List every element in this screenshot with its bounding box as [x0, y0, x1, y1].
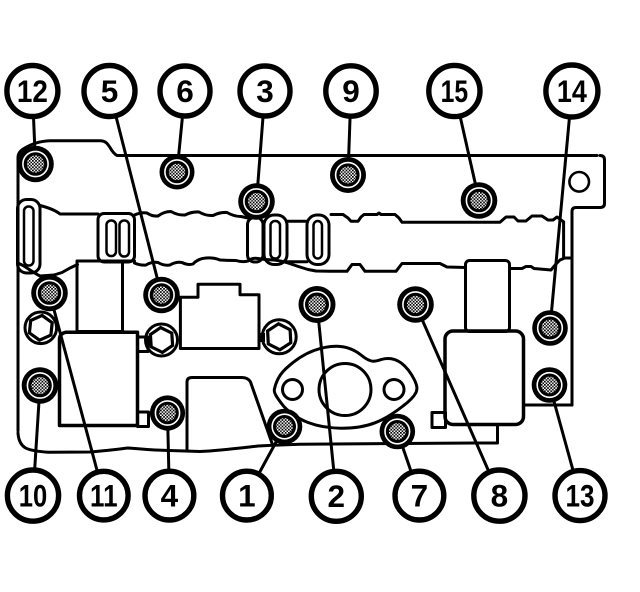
callout 12: [7, 66, 58, 117]
svg-text:12: 12: [17, 73, 48, 109]
leader line 2: [317, 305, 336, 496]
leader line 11: [50, 293, 104, 496]
bolt 10: [22, 367, 59, 404]
leader line 3: [257, 91, 266, 202]
bolt 12: [17, 146, 54, 183]
flange ear hole right: [384, 380, 404, 400]
capsule A inner slot: [271, 221, 281, 259]
svg-text:10: 10: [19, 477, 48, 513]
square notch left of right rect: [432, 413, 446, 428]
right end capsule: [564, 222, 572, 258]
svg-text:9: 9: [342, 73, 360, 109]
hex nut 2: [146, 324, 178, 356]
bottom edge: [18, 425, 498, 452]
ledge below center boss: [187, 378, 273, 450]
callout 13: [555, 471, 605, 521]
square notch upper right of left rect: [138, 337, 149, 352]
bolt 14: [532, 310, 568, 346]
leader line 9: [348, 91, 351, 175]
callout 10: [7, 470, 58, 521]
callout 11: [80, 471, 129, 520]
leader line 14: [550, 91, 572, 328]
capsule B inner slot: [314, 221, 323, 259]
callout 8: [474, 470, 525, 521]
callout 9: [326, 66, 376, 116]
flange ear hole left: [283, 380, 303, 400]
svg-text:4: 4: [161, 477, 179, 513]
svg-text:11: 11: [90, 477, 118, 513]
part outline: top edge and left edge: [18, 141, 597, 431]
center double-slot boss: [98, 214, 135, 263]
callout 7: [395, 471, 444, 520]
lower wavy parting line, middle segment: [135, 258, 466, 271]
bolt 4: [150, 395, 185, 430]
svg-text:15: 15: [441, 73, 469, 109]
upper wavy parting line, middle segment: [135, 212, 249, 219]
bolt 3: [238, 183, 275, 220]
svg-text:8: 8: [491, 477, 509, 513]
leader line 15: [454, 91, 479, 200]
slot capsule B: [307, 215, 329, 265]
exhaust flange: [274, 346, 417, 428]
tab hole: [569, 172, 589, 192]
flange center bore: [319, 364, 371, 416]
lower wavy parting line, right segment: [510, 259, 564, 271]
upper wavy parting line, left segment: [40, 206, 98, 215]
bolt 13: [532, 367, 568, 403]
callout 5: [84, 66, 135, 117]
center boss with tab: [180, 284, 259, 348]
bolt 6: [160, 155, 195, 190]
callout 3: [240, 66, 290, 116]
svg-text:1: 1: [238, 477, 256, 513]
bolt 11: [31, 275, 68, 312]
left tower rect: [77, 261, 123, 332]
leader line 7: [397, 432, 419, 496]
left slot capsule boss: [18, 200, 41, 274]
callout 4: [145, 471, 194, 520]
left capsule inner slot: [24, 207, 34, 266]
top-right tab: [572, 156, 605, 406]
callout 1: [223, 471, 272, 520]
tall bar boss right of bolt 3: [248, 218, 264, 263]
callout 6: [160, 66, 210, 116]
left tower top edge extension: [123, 260, 135, 263]
center boss slot 2: [120, 221, 130, 257]
leader line 13: [550, 385, 581, 496]
hex nut 1: [25, 312, 57, 344]
upper wavy parting line, right segment: [331, 213, 564, 222]
right tower rect: [466, 261, 510, 332]
callout 14: [546, 65, 598, 117]
leader line 4: [168, 413, 170, 496]
leader line 1: [247, 427, 285, 496]
lower wavy parting line, left segment: [18, 263, 78, 276]
square notch lower right of left rect: [138, 412, 149, 427]
callout 2: [311, 471, 361, 521]
hex nut 3: [259, 320, 296, 354]
svg-text:2: 2: [328, 478, 346, 514]
svg-text:14: 14: [557, 73, 587, 109]
bolt 15: [461, 182, 498, 219]
leader line 10: [33, 386, 40, 496]
callout 15: [429, 65, 480, 116]
bolt 9: [330, 157, 366, 193]
bolt 2: [299, 286, 336, 323]
connector lines between capsules: [287, 221, 307, 261]
svg-text:3: 3: [256, 73, 274, 109]
svg-text:6: 6: [176, 73, 194, 109]
center boss slot 1: [107, 221, 117, 257]
bolt 8: [397, 286, 434, 323]
leader line 5: [110, 91, 162, 295]
svg-text:7: 7: [411, 477, 429, 513]
left big rect: [60, 332, 138, 425]
leader line 8: [416, 305, 500, 496]
right lower column bottom: [524, 404, 573, 407]
leader line 12: [32, 91, 35, 164]
right big rect: [445, 331, 524, 425]
bolt 7: [380, 414, 416, 450]
bolt 5: [143, 277, 180, 314]
svg-text:5: 5: [101, 73, 119, 109]
leader line 6: [177, 91, 185, 172]
svg-text:13: 13: [566, 477, 595, 513]
slot capsule A: [264, 215, 287, 265]
bolt 1: [267, 409, 303, 445]
